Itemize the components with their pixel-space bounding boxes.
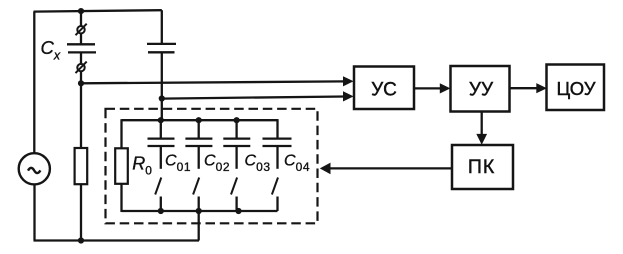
label C04 xyxy=(284,153,310,174)
capacitor C04 xyxy=(263,139,292,146)
block ПК xyxy=(452,145,513,189)
capacitor C02 xyxy=(185,139,212,146)
svg-text:УС: УС xyxy=(371,80,397,101)
junction dot top (Cx branch) xyxy=(78,8,84,14)
block УС xyxy=(354,67,414,110)
inner bottom bus xyxy=(122,210,278,212)
branch C02 wire top xyxy=(198,120,200,138)
wire reference capacitor branch lower xyxy=(161,52,163,120)
branch C03 bottom junction dot xyxy=(235,208,241,214)
switch S2 (lower contact of Cx) xyxy=(76,62,87,74)
label ЦОУ xyxy=(556,78,595,99)
switch K2 xyxy=(193,146,199,211)
resistor R (left branch) xyxy=(75,148,88,184)
label C01 xyxy=(165,153,191,174)
R0 branch upper wire xyxy=(120,119,122,148)
capacitor C01 xyxy=(148,139,175,146)
arrow УС to УУ xyxy=(414,83,450,93)
wire between S1 and Cx xyxy=(80,33,82,44)
R0 branch lower wire xyxy=(120,184,122,212)
branch C03 top junction dot xyxy=(234,117,240,123)
block УУ xyxy=(451,66,510,112)
dashed box (switched capacitor bank) xyxy=(106,109,318,224)
label УС xyxy=(371,80,397,101)
wire line 2 to УС xyxy=(162,91,354,101)
svg-text:УУ: УУ xyxy=(469,80,494,101)
switch K4 xyxy=(272,146,278,211)
block ЦОУ xyxy=(547,65,605,111)
switch K3 xyxy=(231,146,237,211)
wire between S2 and node A xyxy=(80,71,82,83)
wire bottom horizontal xyxy=(34,239,200,241)
label C02 xyxy=(204,153,230,174)
wire bank to bottom rail xyxy=(198,211,200,241)
wire between Cx and S2 xyxy=(80,52,82,64)
branch C03 wire top xyxy=(235,120,237,138)
arrow УУ to ПК xyxy=(476,112,487,145)
branch C01 wire top xyxy=(160,120,162,138)
wire Cx branch top xyxy=(80,11,82,26)
branch C02 top junction dot xyxy=(196,117,202,123)
switch K1 xyxy=(155,146,161,211)
wire resistor branch lower xyxy=(80,184,82,240)
branch C02 bottom junction dot xyxy=(196,208,202,214)
wire top horizontal xyxy=(34,10,162,11)
wire line 1 to УС xyxy=(81,76,354,86)
label УУ xyxy=(469,80,494,101)
resistor R0 xyxy=(115,148,128,184)
arrow ПК to capacitor bank xyxy=(320,163,452,175)
svg-text:ЦОУ: ЦОУ xyxy=(556,78,595,99)
node A junction dot xyxy=(78,80,84,86)
capacitor C0 (reference) xyxy=(147,44,176,52)
label Cx xyxy=(41,37,61,63)
capacitor C03 xyxy=(223,139,250,146)
branch C01 bottom junction dot xyxy=(158,208,164,214)
svg-text:ПК: ПК xyxy=(468,156,495,178)
label ПК xyxy=(468,156,495,178)
wire resistor branch upper xyxy=(80,83,82,148)
junction dot bottom (resistor branch) xyxy=(78,237,84,243)
wire left vertical lower xyxy=(33,184,35,240)
wire reference capacitor branch top xyxy=(161,10,163,44)
branch C01 top junction dot xyxy=(158,117,164,123)
arrow УУ to ЦОУ xyxy=(510,83,547,93)
label R0 xyxy=(132,153,152,177)
label C03 xyxy=(245,153,271,174)
generator G (AC source) xyxy=(19,153,50,184)
inner top bus xyxy=(122,119,278,121)
branch C04 wire top (right side of bus) xyxy=(276,119,278,139)
capacitor Cx xyxy=(67,44,96,52)
switch S1 (upper contact of Cx) xyxy=(76,24,87,36)
junction dot line 2 xyxy=(159,95,165,101)
wire left vertical upper xyxy=(33,12,35,154)
